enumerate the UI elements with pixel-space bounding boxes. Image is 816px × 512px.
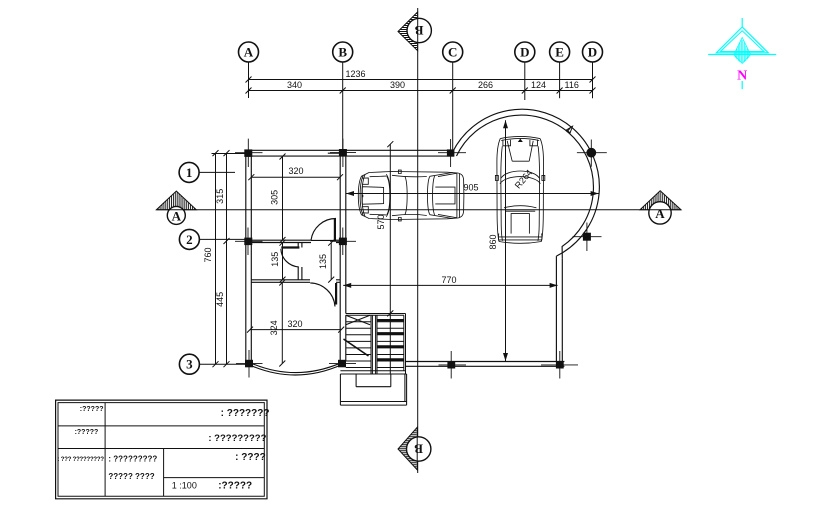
section marker A left <box>156 191 196 224</box>
column A2 <box>244 238 252 246</box>
windshield band arcs <box>501 171 539 178</box>
rear window top arc <box>504 206 536 208</box>
svg-text:445: 445 <box>215 292 225 307</box>
svg-text:390: 390 <box>390 80 405 90</box>
grid bubble D2 <box>583 42 603 62</box>
middle partition wall <box>298 243 302 280</box>
grid extension line D <box>524 62 526 100</box>
svg-text:266: 266 <box>478 80 493 90</box>
svg-text:A: A <box>655 206 665 221</box>
rear bumper <box>457 173 460 218</box>
svg-text:760: 760 <box>203 247 213 262</box>
stair treads left flight <box>346 322 371 368</box>
overall dimension line 1236 <box>249 79 593 81</box>
grid bubble C <box>443 42 463 62</box>
dim 320 bottom <box>250 329 341 331</box>
row 2 interior wall <box>251 240 340 242</box>
stair break line <box>344 339 369 356</box>
trunk bracket <box>511 214 529 234</box>
column wall end row3 <box>556 361 564 368</box>
column axis ticks <box>235 139 607 379</box>
svg-text:: ???????: : ??????? <box>221 408 270 419</box>
side inner lines <box>501 146 503 241</box>
rear deck bracket <box>435 187 455 204</box>
svg-text:????? ????: ????? ???? <box>108 472 154 481</box>
entry porch <box>340 374 406 405</box>
building walls <box>246 109 600 375</box>
dim 135 right <box>330 243 332 280</box>
svg-text:1 :100: 1 :100 <box>172 481 197 491</box>
hood panel trapezoid <box>362 187 383 205</box>
stair up-arrow cross <box>346 315 370 325</box>
svg-text::?????: :????? <box>218 481 252 492</box>
row bubble 2 <box>179 229 199 249</box>
svg-text:2: 2 <box>186 232 193 247</box>
grid extension line E <box>559 62 561 98</box>
body outline left side <box>497 139 500 242</box>
porch inner step <box>356 374 391 387</box>
svg-text:N: N <box>737 69 747 84</box>
columns <box>244 148 596 369</box>
extension line top <box>212 153 246 155</box>
svg-text:D: D <box>520 45 529 60</box>
dim 905 <box>346 193 599 195</box>
left row bubbles and dimensions <box>179 150 246 374</box>
title block <box>56 400 267 499</box>
column B2 <box>339 238 347 246</box>
svg-text:324: 324 <box>269 320 279 335</box>
svg-text:: ?????????: : ????????? <box>208 433 266 444</box>
section line A-A <box>156 191 681 225</box>
wall grid B <box>340 156 346 361</box>
grid bubble B <box>333 42 353 62</box>
door row2 (swings up) <box>311 218 336 240</box>
dim 770 <box>343 284 557 286</box>
svg-text:: ??? ?????????: : ??? ????????? <box>58 457 105 463</box>
car vertical (driveway) <box>495 136 544 243</box>
grid extension line A <box>248 62 250 98</box>
svg-text:860: 860 <box>488 234 498 249</box>
stair enclosure bottom edge <box>340 371 406 374</box>
svg-text:315: 315 <box>215 189 225 204</box>
svg-text:D: D <box>588 45 597 60</box>
dim 135 left <box>282 243 284 280</box>
headlight top-left <box>362 178 368 184</box>
lintel line over top wall <box>328 152 346 154</box>
svg-text:570: 570 <box>376 214 386 229</box>
windshield curves <box>387 176 390 215</box>
row bubble 1 <box>179 162 199 182</box>
hood ornament triangle <box>519 139 522 141</box>
parcel shelf line <box>506 210 536 212</box>
dim 305 <box>282 157 284 241</box>
section line B-B <box>398 8 431 473</box>
headlight bottom-left <box>362 207 368 213</box>
door wall y283 (swings down) <box>310 283 336 307</box>
svg-text:905: 905 <box>463 183 478 193</box>
svg-text:B: B <box>338 45 347 60</box>
svg-text:: ?????????: : ????????? <box>108 454 157 463</box>
svg-text:1: 1 <box>186 165 193 180</box>
garage curved wall outer <box>453 109 600 256</box>
segment dimension line 340/390/266/124/116 <box>249 90 593 92</box>
staircase <box>340 314 406 375</box>
hood tick <box>362 195 364 197</box>
column A3 <box>245 360 253 368</box>
dim 570 <box>389 144 391 374</box>
column on curved wall <box>583 233 591 241</box>
stair enclosure right edge <box>404 314 406 375</box>
column C3 <box>447 361 455 368</box>
dim 320 top <box>251 176 340 178</box>
roof front arc <box>405 176 407 214</box>
north arrow <box>708 18 776 89</box>
row 3 right wall <box>406 362 565 367</box>
car horizontal (garage) <box>358 170 464 221</box>
section marker B top <box>398 12 431 51</box>
top edge inner line <box>370 176 386 215</box>
stair treads right flight <box>377 322 404 368</box>
column C1 <box>447 149 455 156</box>
mirrors <box>495 175 544 180</box>
svg-text:135: 135 <box>318 254 328 269</box>
door partition (swings left) <box>281 248 300 267</box>
section marker B bottom <box>398 427 431 470</box>
headlight left <box>503 140 511 146</box>
dimension line 315/445 <box>226 153 228 364</box>
grid bubble E <box>550 42 570 62</box>
svg-text:340: 340 <box>287 80 302 90</box>
stair enclosure top edge <box>346 314 406 316</box>
svg-text:B: B <box>415 23 424 38</box>
svg-text:C: C <box>448 45 457 60</box>
svg-text:135: 135 <box>270 252 280 267</box>
svg-text:3: 3 <box>186 357 193 372</box>
stair handrail <box>371 315 377 374</box>
radius label R264 <box>567 126 573 133</box>
garage curved wall inner <box>457 115 594 258</box>
round column on arc at grid D2 <box>586 148 596 158</box>
dimension line 760 <box>215 153 217 364</box>
body outline <box>358 172 464 220</box>
column A1 <box>244 149 252 157</box>
grid extension line D2 <box>592 62 594 98</box>
interior wall y283 <box>251 280 340 283</box>
row 3 curved wall <box>249 363 343 375</box>
svg-text:305: 305 <box>269 190 279 205</box>
svg-text:B: B <box>414 442 423 457</box>
headlight right <box>530 140 538 146</box>
top exterior wall <box>246 150 454 156</box>
svg-text:1236: 1236 <box>346 69 366 79</box>
bumper side caps <box>498 234 541 241</box>
left exterior wall <box>246 150 252 366</box>
interior dimensions <box>247 120 599 374</box>
row bubble 3 <box>179 354 199 374</box>
svg-text:320: 320 <box>287 319 302 329</box>
front bumper inner curves <box>360 175 363 215</box>
rear wedge lines <box>430 173 453 219</box>
rear bumper double line <box>499 237 542 240</box>
column B1 <box>339 149 347 157</box>
grid extension line B <box>342 62 344 150</box>
svg-text:116: 116 <box>565 80 579 90</box>
svg-text:770: 770 <box>441 275 456 285</box>
mirrors <box>398 170 401 221</box>
svg-text:124: 124 <box>531 80 546 90</box>
svg-text:A: A <box>244 45 254 60</box>
roof side creases <box>392 175 427 215</box>
dim 860 <box>505 120 507 361</box>
svg-text:E: E <box>555 45 564 60</box>
svg-text:A: A <box>172 208 182 223</box>
grid bubble A <box>239 42 259 62</box>
dim 324 <box>281 283 283 364</box>
rear window curves <box>427 176 429 214</box>
nose double arc <box>500 136 540 138</box>
svg-text::?????: :????? <box>80 406 104 413</box>
hood trapezoid <box>507 141 533 161</box>
svg-text:: ????: : ???? <box>235 452 266 463</box>
section marker A right <box>640 191 681 224</box>
garage side wall <box>556 256 562 361</box>
column B3 <box>338 360 346 368</box>
tail arc <box>499 242 541 244</box>
svg-text:320: 320 <box>288 166 303 176</box>
grid bubble D <box>515 42 535 62</box>
body outline right side <box>540 139 543 242</box>
grid extension line C <box>452 62 454 150</box>
svg-text::?????: :????? <box>75 429 99 436</box>
